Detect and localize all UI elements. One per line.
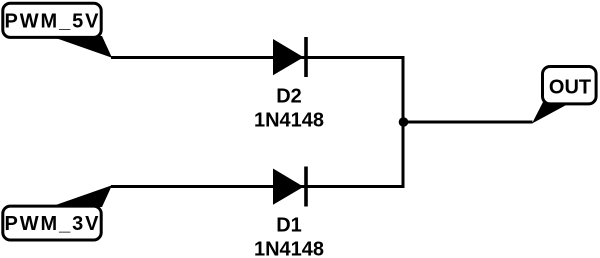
wire top: PWM_5V flag to vertical bus (111, 56, 403, 59)
wire output: junction to OUT flag (403, 121, 533, 124)
diode D2 (273, 37, 308, 77)
svg-text:1N4148: 1N4148 (254, 110, 324, 132)
label D1 1N4148 (254, 215, 324, 258)
svg-text:D1: D1 (276, 215, 302, 237)
svg-text:OUT: OUT (549, 77, 591, 99)
diode D1 (273, 167, 308, 207)
svg-text:D2: D2 (276, 86, 302, 108)
net flag PWM_5V (3, 3, 112, 58)
svg-text:1N4148: 1N4148 (254, 239, 324, 258)
node junction dot (399, 117, 409, 127)
net flag PWM_3V (3, 185, 112, 240)
wire bottom: PWM_3V flag to vertical bus (111, 185, 403, 188)
net flag OUT (532, 67, 596, 124)
label D2 1N4148 (254, 86, 324, 132)
wire right vertical bus (402, 58, 405, 187)
